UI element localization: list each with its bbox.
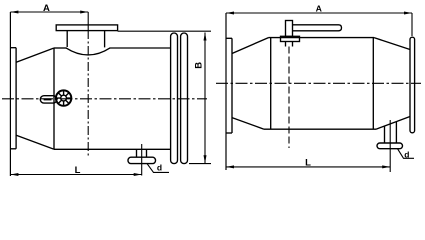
gauge valve handwheel spokes	[56, 90, 71, 105]
svg-text:A: A	[316, 3, 323, 13]
gauge valve handle pill	[40, 96, 57, 103]
cone bottom-right (right view)	[376, 117, 410, 130]
dimension A right arrowhead (right view)	[404, 12, 412, 15]
dimension L left arrowhead (left view)	[10, 173, 18, 176]
left weld seam (right view)	[270, 38, 272, 130]
drain centerline (left view)	[141, 144, 143, 176]
drain flange pill (right view)	[377, 143, 403, 149]
horizontal line from flange to B extension	[118, 30, 211, 32]
left flange top step (right view)	[226, 37, 232, 39]
drain nozzle right wall (right view)	[395, 122, 397, 143]
svg-text:B: B	[193, 62, 204, 69]
dimension L left arrowhead (right view)	[226, 165, 234, 168]
gauge valve handle slot	[44, 98, 52, 100]
dimension L right arrowhead (left view)	[134, 173, 142, 176]
svg-text:L: L	[305, 157, 311, 168]
drain centerline (right view)	[389, 120, 391, 172]
vent valve stem	[286, 21, 293, 37]
right weld seam (right view)	[372, 38, 374, 130]
vent valve centerline dashed (right view)	[288, 47, 290, 149]
inlet flange inner edge	[15, 48, 17, 149]
cone bottom-left (right view)	[232, 118, 264, 130]
svg-text:L: L	[75, 165, 81, 176]
body top line (right view)	[269, 37, 375, 39]
d leader line (left view)	[147, 164, 169, 173]
inlet flange top step	[10, 47, 16, 49]
top nozzle centerline dash-dot	[87, 30, 89, 158]
dimension B bottom arrowhead	[204, 155, 207, 163]
left flange bottom step (right view)	[226, 132, 232, 134]
left flange face / extension line (right view)	[225, 13, 227, 170]
dimension L line (left view)	[10, 174, 141, 176]
dimension A left arrowhead (right view)	[226, 12, 234, 15]
vent valve flange bar	[281, 36, 300, 41]
cone top-left (right view)	[232, 38, 269, 54]
left flange inner edge (right view)	[231, 38, 233, 133]
horizontal centerline (right view)	[216, 82, 421, 84]
svg-text:d: d	[157, 162, 162, 172]
B bottom extension line	[189, 163, 211, 165]
dimension A left arrowhead	[10, 11, 18, 14]
horizontal centerline (left view)	[2, 98, 207, 100]
gauge valve handwheel outer ring	[56, 90, 71, 105]
vent valve stub right wall	[292, 42, 294, 47]
body bottom line (right view)	[264, 128, 376, 130]
svg-text:d: d	[404, 149, 409, 159]
right flange bar (right view)	[410, 37, 415, 133]
dimension B top arrowhead	[204, 33, 207, 41]
inlet cone top line	[16, 48, 54, 62]
quick-open cover bar 1	[171, 33, 178, 164]
dimension B line	[204, 33, 206, 164]
inlet cone bottom line	[16, 135, 54, 149]
top nozzle centerline solid upper part	[87, 12, 89, 30]
cone top-right (right view)	[374, 38, 410, 50]
gauge valve handwheel hub	[61, 95, 67, 101]
top nozzle neck right wall	[104, 31, 106, 48]
inlet flange bottom step	[10, 148, 16, 150]
dimension A line (left view)	[10, 11, 88, 13]
dimension A right arrowhead	[80, 11, 88, 14]
body bottom line	[54, 148, 171, 150]
inlet flange face / extension line	[9, 12, 11, 176]
d leader line (right view)	[398, 149, 415, 159]
quick-open cover bar 2	[181, 33, 188, 164]
dished dome arc under nozzle	[66, 48, 110, 55]
vent valve lever handle	[293, 25, 342, 31]
drain flange pill (left view)	[128, 157, 156, 163]
top nozzle flange plate	[56, 25, 117, 31]
dimension L line (right view)	[226, 166, 390, 168]
dimension L right arrowhead (right view)	[382, 165, 390, 168]
body top line right segment	[110, 47, 171, 49]
top nozzle neck left wall	[66, 31, 68, 47]
cone-shell weld seam	[53, 48, 55, 149]
dimension A line (right view)	[226, 12, 412, 14]
drain nozzle right wall (left view)	[146, 149, 148, 157]
body top line left segment	[54, 47, 67, 49]
A right extension line (right view)	[411, 13, 413, 36]
vent valve stub left wall	[285, 42, 287, 47]
drain nozzle left wall (left view)	[136, 149, 138, 157]
drain nozzle left wall (right view)	[384, 126, 386, 143]
svg-text:A: A	[43, 3, 50, 14]
